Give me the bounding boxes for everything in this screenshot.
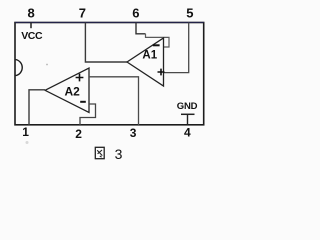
pin 2 wire (from A2 inverting input) xyxy=(80,104,96,125)
IC package U1 outline xyxy=(15,23,204,125)
pin 6 wire (to A1 inverting input) xyxy=(136,23,146,34)
faint smudge top-left of caption xyxy=(26,141,29,144)
A2 plus input symbol xyxy=(76,74,84,82)
notch (pin-1 index) on left edge xyxy=(16,60,23,76)
pin 7 wire (to A1 output) xyxy=(85,23,127,63)
svg-text:3: 3 xyxy=(130,126,137,140)
A1 minus input symbol xyxy=(153,44,160,46)
pin 6 wire continuation to A1 inverting input xyxy=(146,34,170,47)
pin 1 wire (from A2 output) xyxy=(29,90,45,125)
svg-text:3: 3 xyxy=(115,146,123,162)
op-amp A1 triangle xyxy=(127,38,164,86)
pin 5 wire (to A1 non-inverting input) xyxy=(164,23,189,73)
caption character tu (figure) xyxy=(95,147,104,158)
op-amp A2 triangle xyxy=(45,68,89,113)
A1 plus input symbol xyxy=(158,69,165,76)
pin 4 GND stub xyxy=(187,114,189,125)
svg-text:2: 2 xyxy=(75,127,82,141)
svg-text:A1: A1 xyxy=(142,49,157,61)
svg-text:A2: A2 xyxy=(65,84,81,98)
pin 8 stub xyxy=(30,23,32,29)
top edge blue tint xyxy=(15,21,204,23)
faint dot near A2 xyxy=(46,64,48,66)
svg-text:GND: GND xyxy=(177,101,198,112)
svg-text:4: 4 xyxy=(184,126,191,140)
pin 3 wire (from A2 non-invertinginput) xyxy=(89,77,139,125)
svg-text:5: 5 xyxy=(186,5,193,20)
svg-text:8: 8 xyxy=(28,6,35,21)
svg-text:1: 1 xyxy=(22,125,29,139)
GND tick bar xyxy=(181,113,195,115)
svg-text:VCC: VCC xyxy=(21,30,43,42)
A2 minus input symbol xyxy=(80,101,86,103)
svg-text:7: 7 xyxy=(79,6,86,21)
svg-text:6: 6 xyxy=(132,5,139,20)
